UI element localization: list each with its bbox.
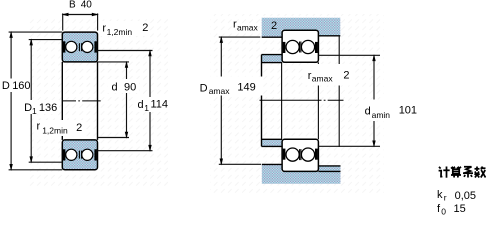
svg-text:2: 2 — [76, 122, 82, 134]
svg-text:D: D — [24, 102, 32, 114]
svg-text:amin: amin — [372, 110, 391, 120]
svg-text:101: 101 — [399, 105, 417, 117]
svg-text:15: 15 — [454, 203, 466, 215]
svg-text:40: 40 — [81, 0, 93, 11]
svg-text:2: 2 — [343, 70, 349, 82]
svg-text:d: d — [112, 82, 118, 94]
svg-text:d: d — [138, 99, 144, 111]
svg-text:B: B — [69, 0, 76, 11]
svg-text:1,2min: 1,2min — [42, 125, 68, 135]
svg-text:amax: amax — [209, 86, 231, 96]
svg-text:2: 2 — [271, 20, 277, 32]
svg-text:1: 1 — [144, 103, 149, 113]
svg-text:D: D — [200, 82, 208, 94]
svg-text:149: 149 — [237, 82, 255, 94]
svg-text:r: r — [37, 120, 41, 132]
svg-text:0: 0 — [441, 207, 446, 217]
svg-text:D: D — [2, 80, 10, 92]
svg-text:90: 90 — [124, 82, 136, 94]
svg-text:k: k — [437, 189, 443, 201]
svg-text:amax: amax — [237, 23, 259, 33]
svg-text:114: 114 — [151, 99, 169, 111]
svg-text:2: 2 — [142, 22, 148, 34]
svg-text:0,05: 0,05 — [455, 190, 476, 202]
svg-text:d: d — [365, 106, 371, 118]
svg-text:amax: amax — [312, 73, 334, 83]
svg-text:r: r — [444, 193, 447, 203]
svg-text:136: 136 — [39, 102, 57, 114]
svg-text:1: 1 — [32, 106, 37, 116]
svg-text:1,2min: 1,2min — [107, 27, 133, 37]
svg-text:160: 160 — [12, 80, 30, 92]
